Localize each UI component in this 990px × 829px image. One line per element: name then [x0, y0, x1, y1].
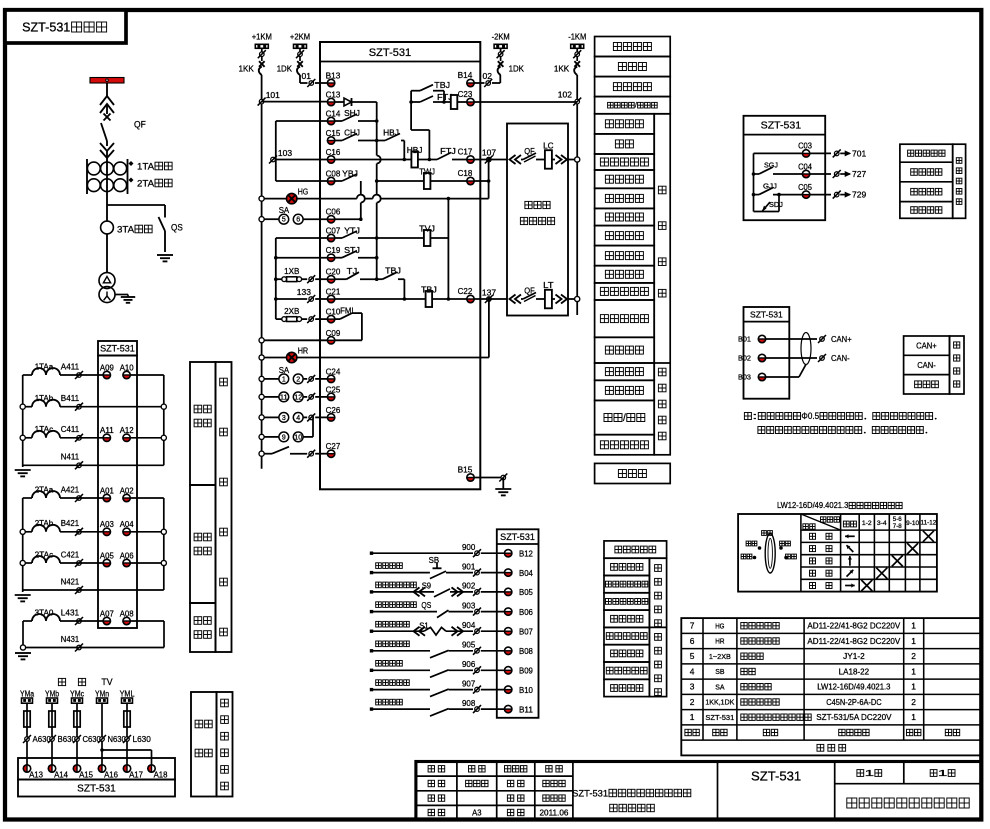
- svg-text:A07: A07: [100, 609, 114, 618]
- svg-text:137: 137: [482, 288, 496, 298]
- svg-text:900: 900: [462, 543, 476, 552]
- svg-text:B15: B15: [458, 465, 473, 475]
- svg-text:LA18-22: LA18-22: [839, 667, 870, 676]
- svg-text:QF: QF: [524, 146, 535, 156]
- svg-text:1-2: 1-2: [862, 520, 872, 527]
- svg-text:AD11-22/41-8G2 DC220V: AD11-22/41-8G2 DC220V: [807, 622, 901, 631]
- svg-text:133: 133: [297, 287, 311, 297]
- svg-text:2: 2: [690, 697, 695, 707]
- svg-text:/: /: [623, 413, 626, 424]
- svg-text:SDJ: SDJ: [769, 200, 783, 209]
- svg-text:1: 1: [690, 712, 695, 722]
- svg-text:B421: B421: [61, 519, 80, 528]
- svg-text:FTJ: FTJ: [440, 146, 456, 156]
- svg-text:11-12: 11-12: [921, 520, 937, 527]
- svg-text:1DK: 1DK: [277, 64, 293, 74]
- svg-text:2TA: 2TA: [137, 178, 155, 189]
- svg-text:L431: L431: [61, 608, 80, 617]
- svg-text:C25: C25: [326, 384, 341, 394]
- svg-text:N411: N411: [61, 453, 80, 462]
- svg-text:2: 2: [911, 651, 916, 661]
- svg-text:AD11-22/41-8G2 DC220V: AD11-22/41-8G2 DC220V: [807, 637, 901, 646]
- svg-text:Φ0.5: Φ0.5: [801, 411, 819, 421]
- svg-text:A10: A10: [120, 363, 134, 372]
- svg-text:907: 907: [462, 679, 476, 688]
- svg-text:HG: HG: [715, 621, 724, 630]
- svg-text:1XB: 1XB: [284, 266, 300, 276]
- svg-text:2TAc: 2TAc: [35, 550, 54, 559]
- svg-text:JY1-2: JY1-2: [843, 652, 865, 661]
- svg-text:A3: A3: [472, 808, 482, 817]
- svg-text:C07: C07: [326, 226, 341, 236]
- svg-text:1: 1: [911, 621, 916, 631]
- svg-text:4: 4: [296, 415, 300, 422]
- svg-text:3: 3: [282, 415, 286, 422]
- svg-text:C45N-2P-6A-DC: C45N-2P-6A-DC: [826, 698, 882, 707]
- svg-text:A01: A01: [100, 486, 114, 495]
- svg-text:C14: C14: [326, 109, 341, 119]
- svg-text:1: 1: [911, 712, 916, 722]
- svg-text:A11: A11: [100, 426, 114, 435]
- svg-text:L630: L630: [133, 735, 152, 744]
- svg-text:C22: C22: [458, 286, 473, 296]
- svg-text:3TA0: 3TA0: [35, 608, 54, 617]
- svg-text:YMn: YMn: [95, 689, 109, 698]
- svg-text:TBJ: TBJ: [421, 285, 437, 295]
- svg-text:TV: TV: [101, 677, 112, 687]
- svg-text:SZT-531: SZT-531: [705, 713, 734, 722]
- svg-text:1TAb: 1TAb: [35, 394, 54, 403]
- svg-text:1KK,1DK: 1KK,1DK: [705, 698, 734, 707]
- svg-text:1: 1: [865, 768, 875, 778]
- svg-text:901: 901: [462, 562, 476, 571]
- svg-text:C17: C17: [458, 147, 473, 157]
- svg-text:C06: C06: [326, 207, 341, 217]
- svg-text:5-6: 5-6: [893, 516, 902, 523]
- svg-text:SZT-531: SZT-531: [761, 120, 802, 132]
- svg-text:103: 103: [278, 148, 292, 158]
- svg-text:C08: C08: [326, 169, 341, 179]
- svg-text:QF: QF: [134, 119, 146, 130]
- svg-text:N421: N421: [61, 577, 80, 586]
- svg-text:2TAb: 2TAb: [35, 519, 54, 528]
- svg-text:1: 1: [911, 636, 916, 646]
- svg-text:TJ: TJ: [347, 266, 358, 276]
- svg-text:3TA: 3TA: [117, 224, 135, 235]
- svg-text:A411: A411: [61, 362, 80, 371]
- svg-text:904: 904: [462, 621, 476, 630]
- svg-text:A09: A09: [100, 363, 114, 372]
- svg-text:1DK: 1DK: [509, 64, 525, 74]
- svg-text:SA: SA: [715, 682, 724, 691]
- svg-text:YTJ: YTJ: [344, 226, 360, 236]
- svg-text:LW12-16D/49.4021.3: LW12-16D/49.4021.3: [777, 501, 848, 510]
- svg-text:SA: SA: [279, 365, 290, 375]
- svg-text:102: 102: [558, 90, 572, 100]
- svg-text:906: 906: [462, 660, 476, 669]
- svg-text:A03: A03: [100, 520, 114, 529]
- svg-text:FML: FML: [340, 306, 356, 316]
- svg-text:1~2XB: 1~2XB: [709, 652, 731, 661]
- svg-text:SZT-531: SZT-531: [22, 20, 70, 34]
- svg-text:B12: B12: [519, 550, 533, 559]
- svg-text:SB: SB: [715, 667, 724, 676]
- svg-text:C05: C05: [798, 183, 812, 192]
- svg-text:2011.06: 2011.06: [540, 808, 569, 817]
- svg-text:TWJ: TWJ: [419, 167, 435, 177]
- svg-text:C23: C23: [458, 89, 473, 99]
- svg-text:1KK: 1KK: [239, 64, 255, 74]
- svg-text:7-8: 7-8: [893, 523, 902, 530]
- svg-text:908: 908: [462, 699, 476, 708]
- svg-text:SZT-531: SZT-531: [369, 47, 411, 59]
- svg-text:B05: B05: [519, 588, 533, 597]
- svg-text:C09: C09: [326, 328, 341, 338]
- svg-text:4: 4: [690, 667, 695, 677]
- svg-text:B01: B01: [738, 335, 751, 344]
- svg-text:1: 1: [911, 682, 916, 692]
- svg-text:SZT-531: SZT-531: [100, 344, 135, 354]
- svg-text:A02: A02: [120, 486, 134, 495]
- svg-text:1TAc: 1TAc: [35, 425, 54, 434]
- svg-text:1: 1: [911, 667, 916, 677]
- svg-text:CAN-: CAN-: [831, 353, 850, 363]
- svg-text:B13: B13: [326, 71, 341, 81]
- svg-text:B07: B07: [519, 628, 533, 637]
- svg-text:HR: HR: [715, 637, 725, 646]
- svg-text:YMa: YMa: [20, 689, 35, 698]
- svg-text:TBJ: TBJ: [385, 266, 401, 276]
- svg-text:C13: C13: [326, 90, 341, 100]
- svg-text:C19: C19: [326, 245, 341, 255]
- svg-text:A04: A04: [120, 520, 134, 529]
- svg-text:C411: C411: [61, 425, 80, 434]
- svg-text:1: 1: [282, 376, 286, 383]
- svg-text:N431: N431: [61, 635, 80, 644]
- svg-text:10: 10: [294, 434, 302, 441]
- svg-text:C04: C04: [798, 162, 812, 171]
- svg-text:GJJ: GJJ: [763, 182, 777, 191]
- svg-text:SZT-531: SZT-531: [750, 310, 783, 320]
- svg-text:2XB: 2XB: [284, 306, 300, 316]
- svg-text:YMb: YMb: [45, 689, 60, 698]
- svg-text:C18: C18: [458, 168, 473, 178]
- svg-text:HBJ: HBJ: [383, 128, 399, 138]
- svg-text:902: 902: [462, 582, 476, 591]
- svg-text:QS: QS: [171, 222, 183, 233]
- svg-text:11: 11: [280, 394, 288, 401]
- svg-text:A17: A17: [129, 770, 143, 779]
- svg-text:5: 5: [690, 651, 695, 661]
- svg-text:A18: A18: [154, 770, 168, 779]
- svg-text:S9: S9: [422, 581, 432, 590]
- svg-text:C03: C03: [798, 142, 812, 151]
- svg-text:6: 6: [296, 217, 300, 224]
- svg-text:YBJ: YBJ: [342, 169, 358, 179]
- svg-text:903: 903: [462, 601, 476, 610]
- svg-text:101: 101: [266, 90, 280, 100]
- svg-text:A12: A12: [120, 426, 134, 435]
- svg-text:TVJ: TVJ: [419, 224, 435, 234]
- svg-text:6: 6: [690, 636, 695, 646]
- svg-text:3-4: 3-4: [877, 520, 887, 527]
- svg-text:1TAa: 1TAa: [35, 362, 54, 371]
- svg-text:B08: B08: [519, 647, 533, 656]
- svg-text:STJ: STJ: [344, 245, 360, 255]
- svg-text:LW12-16D/49.4021.3: LW12-16D/49.4021.3: [817, 683, 891, 692]
- svg-text:5: 5: [282, 217, 286, 224]
- svg-text:A421: A421: [61, 485, 80, 494]
- svg-text:/: /: [635, 103, 637, 110]
- svg-text::: :: [752, 411, 757, 421]
- svg-text:1KK: 1KK: [554, 64, 570, 74]
- svg-text:LC: LC: [543, 141, 554, 151]
- svg-text:12: 12: [294, 394, 302, 401]
- svg-text:1TA: 1TA: [137, 161, 155, 172]
- svg-text:LT: LT: [543, 280, 554, 290]
- svg-text:-1KM: -1KM: [568, 32, 586, 42]
- svg-text:B411: B411: [61, 394, 80, 403]
- svg-text:QF: QF: [524, 286, 535, 296]
- svg-text:+1KM: +1KM: [252, 32, 272, 42]
- svg-text:A16: A16: [104, 770, 118, 779]
- svg-text:9-10: 9-10: [906, 520, 919, 527]
- svg-text:02: 02: [483, 71, 493, 81]
- svg-text:SZT-531: SZT-531: [500, 532, 535, 542]
- svg-text:7: 7: [690, 621, 695, 631]
- svg-text:C26: C26: [326, 405, 341, 415]
- svg-text:C10: C10: [326, 307, 341, 317]
- svg-text:729: 729: [852, 190, 866, 200]
- svg-text:1: 1: [938, 768, 948, 778]
- svg-text:B09: B09: [519, 667, 533, 676]
- svg-text:727: 727: [852, 169, 866, 179]
- svg-text:905: 905: [462, 641, 476, 650]
- svg-text:CAN+: CAN+: [916, 341, 937, 351]
- svg-text:HG: HG: [298, 187, 309, 197]
- svg-text:B10: B10: [519, 686, 533, 695]
- svg-text:A08: A08: [120, 609, 134, 618]
- svg-text:C16: C16: [326, 147, 341, 157]
- svg-text:TBJ: TBJ: [434, 80, 450, 90]
- svg-text:B14: B14: [458, 70, 473, 80]
- svg-text:701: 701: [852, 148, 866, 158]
- svg-text:C24: C24: [326, 366, 341, 376]
- svg-text:3: 3: [690, 682, 695, 692]
- svg-text:A06: A06: [120, 551, 134, 560]
- svg-text:C421: C421: [61, 550, 80, 559]
- svg-text:C20: C20: [326, 267, 341, 277]
- svg-text:2TAa: 2TAa: [35, 485, 54, 494]
- svg-text:SZT-531: SZT-531: [572, 788, 608, 798]
- svg-text:CHJ: CHJ: [344, 128, 360, 138]
- svg-text:SZT-531: SZT-531: [77, 784, 116, 795]
- svg-text:01: 01: [302, 71, 312, 81]
- svg-text:SZT-531/5A DC220V: SZT-531/5A DC220V: [816, 713, 892, 722]
- svg-text:C27: C27: [326, 441, 341, 451]
- svg-text:B11: B11: [519, 705, 533, 714]
- svg-text:9: 9: [282, 434, 286, 441]
- svg-text:YMc: YMc: [70, 689, 84, 698]
- svg-text:QS: QS: [421, 601, 431, 610]
- svg-text:+2KM: +2KM: [290, 32, 310, 42]
- svg-text:CAN-: CAN-: [917, 360, 936, 370]
- svg-text:107: 107: [482, 148, 496, 158]
- svg-text:CAN+: CAN+: [831, 334, 852, 344]
- svg-text:YML: YML: [120, 689, 135, 698]
- svg-text:C21: C21: [326, 287, 341, 297]
- svg-text:A05: A05: [100, 551, 114, 560]
- svg-text:B06: B06: [519, 608, 533, 617]
- svg-text:SZT-531: SZT-531: [751, 769, 801, 784]
- svg-text:B03: B03: [738, 373, 751, 382]
- svg-text:A13: A13: [29, 770, 43, 779]
- svg-text:2: 2: [296, 376, 300, 383]
- svg-text:C15: C15: [326, 128, 341, 138]
- svg-text:2: 2: [911, 697, 916, 707]
- svg-text:B04: B04: [519, 569, 533, 578]
- svg-text:A15: A15: [79, 770, 93, 779]
- svg-text:SGJ: SGJ: [764, 161, 778, 170]
- svg-text:SHJ: SHJ: [344, 108, 360, 118]
- svg-text:A14: A14: [54, 770, 68, 779]
- svg-text:-2KM: -2KM: [492, 32, 510, 42]
- svg-text:HBJ: HBJ: [407, 145, 423, 155]
- svg-text:HR: HR: [298, 346, 309, 356]
- svg-text:SA: SA: [279, 205, 290, 215]
- svg-text:B02: B02: [738, 354, 751, 363]
